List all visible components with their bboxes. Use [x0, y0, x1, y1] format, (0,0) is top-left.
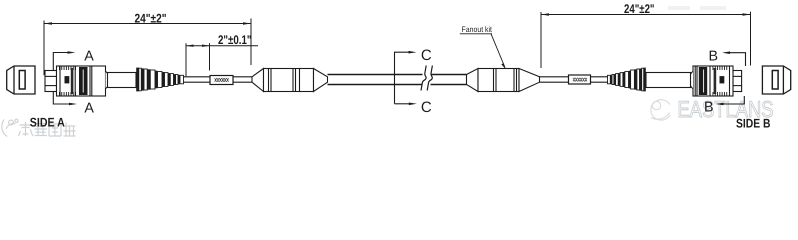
svg-text:24"±2": 24"±2" [135, 12, 167, 26]
connector A body [45, 66, 184, 96]
svg-text:C: C [421, 99, 432, 116]
label sleeve A [210, 76, 233, 85]
wire: thin cable A segment 2 [233, 77, 252, 82]
section line A bottom [53, 92, 69, 104]
fanout kit B [467, 69, 540, 92]
wire: trunk cable right of break [431, 75, 467, 85]
fanout kit A [252, 69, 328, 92]
wire: thin cable A segment 1 [184, 77, 211, 82]
wire: thin cable B segment 1 [540, 77, 569, 82]
svg-text:C: C [421, 47, 432, 64]
section line C bottom arrow [395, 103, 410, 105]
svg-text:B: B [704, 100, 714, 116]
watermark faint top right [668, 6, 726, 10]
section line B bottom [723, 96, 744, 104]
section line C top [395, 52, 410, 104]
wire: trunk cable left of break [328, 75, 423, 85]
break symbol [421, 66, 432, 91]
connector B end view (mirrored) [762, 66, 790, 94]
svg-text:A: A [84, 48, 94, 64]
svg-text:24"±2": 24"±2" [624, 2, 655, 16]
svg-text:Fanout kit: Fanout kit [462, 25, 493, 34]
dimension 24"±2" left [44, 19, 251, 76]
svg-text:B: B [709, 49, 719, 65]
section line B top [730, 53, 746, 66]
dimension 24"±2" right [541, 12, 751, 68]
svg-text:2"±0.1": 2"±0.1" [218, 33, 252, 47]
section line A top [53, 53, 68, 71]
wire: thin cable B segment 2 [591, 77, 609, 82]
label sleeve B [569, 75, 591, 84]
dimension 2"±0.1" [186, 43, 258, 76]
connector A end view [7, 66, 35, 94]
svg-text:SIDE A: SIDE A [30, 116, 65, 130]
watermark left (logo + CJK characters) [2, 119, 76, 136]
svg-text:SIDE B: SIDE B [736, 116, 771, 130]
connector B body [608, 66, 742, 96]
watermark right (logo + EASTLANS) [651, 96, 774, 122]
svg-text:A: A [84, 101, 94, 117]
